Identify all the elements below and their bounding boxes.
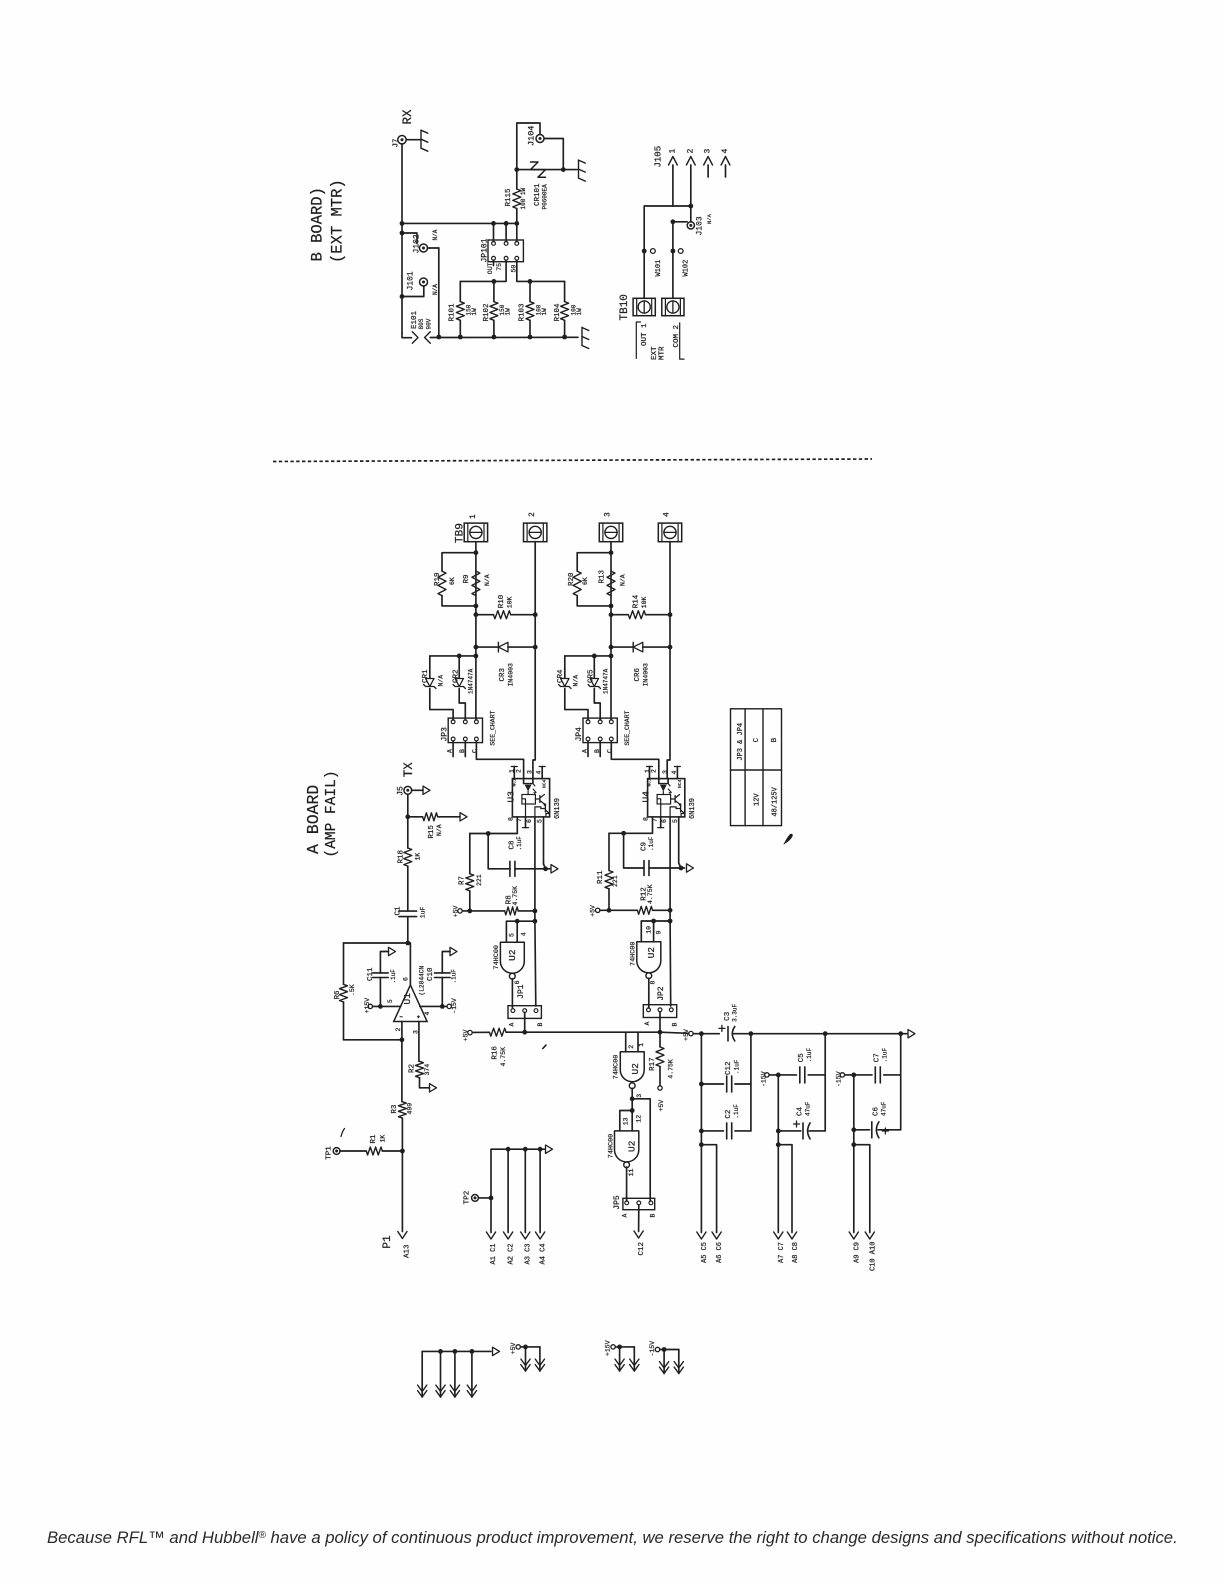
wire P1 ground bus — [491, 1149, 545, 1198]
wire JP2 mid to rail — [659, 1012, 661, 1032]
svg-text:.1uF: .1uF — [882, 1047, 889, 1062]
resistor R7 — [469, 834, 471, 874]
svg-text:C1: C1 — [395, 906, 403, 916]
svg-text:4.75K: 4.75K — [647, 884, 654, 904]
resistor R17 — [659, 1032, 661, 1047]
svg-text:W102: W102 — [683, 260, 691, 277]
svg-text:2: 2 — [686, 149, 695, 154]
resistor R6 — [343, 943, 345, 984]
svg-text:C: C — [607, 749, 614, 753]
resistor R19 loop — [442, 553, 476, 571]
svg-text:(L2844CN: (L2844CN — [418, 966, 425, 996]
svg-text:TP2: TP2 — [464, 1191, 472, 1205]
svg-text:74HC00: 74HC00 — [612, 1055, 620, 1079]
svg-text:U2: U2 — [646, 947, 657, 959]
wire gate3 pin12 — [631, 1111, 633, 1131]
svg-text:9: 9 — [656, 931, 663, 935]
svg-text:CR1: CR1 — [422, 669, 430, 683]
resistor R10 — [476, 614, 494, 616]
svg-text:N/A: N/A — [432, 229, 439, 240]
svg-text:J5: J5 — [396, 786, 405, 796]
wire TB9-2 column — [533, 542, 535, 779]
svg-text:10K: 10K — [641, 596, 648, 608]
wire column A9 — [853, 1075, 855, 1233]
resistor R12 — [609, 909, 637, 911]
jumper block JP1 — [508, 1006, 541, 1019]
svg-text:4: 4 — [424, 1012, 431, 1016]
wire JP4 stubs — [587, 741, 589, 757]
power tap +15V U1 — [368, 1004, 372, 1008]
svg-text:R115: R115 — [505, 188, 513, 207]
wire gate1 output — [511, 979, 513, 1008]
svg-text:A: A — [621, 1214, 628, 1218]
wire JP3 top rail — [430, 655, 476, 657]
svg-text:6: 6 — [661, 819, 668, 823]
ground bus bottom left — [422, 1350, 491, 1352]
svg-text:80S: 80S — [418, 318, 425, 329]
svg-text:R17: R17 — [649, 1057, 657, 1071]
svg-text:R104: R104 — [554, 303, 562, 322]
capacitor C9 — [624, 833, 645, 868]
svg-text:A: A — [509, 1023, 516, 1027]
svg-text:.1uF: .1uF — [806, 1047, 813, 1062]
terminal TB9-2 — [524, 523, 547, 542]
svg-text:+5V: +5V — [463, 1029, 470, 1041]
svg-text:R16: R16 — [491, 1046, 499, 1060]
svg-text:R2: R2 — [408, 1064, 416, 1073]
scan artifact squiggle — [341, 1129, 345, 1137]
svg-text:47uF: 47uF — [805, 1101, 812, 1116]
test point TP1 — [333, 1148, 340, 1155]
wire JP101-75 to R101/R102 — [460, 260, 506, 281]
svg-text:CR5: CR5 — [587, 669, 595, 683]
svg-text:Because RFL™ and Hubbell® have: Because RFL™ and Hubbell® have a policy … — [47, 1528, 1178, 1547]
ground pin 2 — [440, 1351, 442, 1397]
diode CR6 — [611, 646, 633, 648]
svg-text:10K: 10K — [506, 596, 513, 608]
svg-text:B BOARD): B BOARD) — [309, 187, 327, 261]
svg-text:+15V: +15V — [364, 998, 371, 1014]
wire TB10 out1 riser — [644, 206, 691, 298]
svg-text:4: 4 — [663, 512, 672, 517]
svg-text:1W: 1W — [541, 308, 548, 316]
wire JP101-50 to R103/R104 — [517, 260, 565, 281]
wire TB10 com2 riser — [672, 222, 674, 298]
terminal TB10-1 — [633, 298, 655, 315]
jumper block JP3 — [448, 718, 482, 743]
svg-text:TB10: TB10 — [619, 294, 631, 320]
svg-text:P1: P1 — [382, 1235, 394, 1249]
svg-text:6: 6 — [514, 980, 521, 984]
nand gate U2a — [500, 942, 524, 973]
svg-text:U2: U2 — [627, 1140, 638, 1152]
svg-text:+5V: +5V — [589, 905, 596, 917]
svg-text:C5: C5 — [798, 1053, 806, 1063]
svg-text:.5K: .5K — [349, 984, 356, 996]
wire J104 to ground — [544, 139, 563, 170]
svg-text:374: 374 — [424, 1064, 431, 1076]
svg-text:P0600EA: P0600EA — [542, 184, 549, 210]
net arrow at J5 — [412, 789, 423, 791]
svg-text:1: 1 — [638, 1043, 645, 1047]
svg-text:IN4003: IN4003 — [642, 663, 649, 687]
net arrow A6 C6 — [701, 1145, 716, 1233]
wire J103 link — [673, 221, 687, 223]
svg-text:6: 6 — [402, 977, 409, 981]
wire gate2 pin1 tap — [637, 1032, 639, 1052]
svg-text:R3: R3 — [391, 1104, 399, 1114]
svg-text:J101: J101 — [407, 271, 416, 290]
svg-text:R7: R7 — [458, 876, 466, 885]
svg-text:RX: RX — [401, 109, 415, 125]
wire U1 pin2 — [401, 1022, 403, 1102]
capacitor C11 — [379, 978, 381, 1007]
net arrow +5V rail — [901, 1033, 908, 1035]
svg-text:JP101: JP101 — [481, 238, 490, 262]
svg-text:-15V: -15V — [836, 1071, 843, 1087]
wire J7 column lower — [401, 233, 403, 297]
wire J104 loop — [517, 123, 540, 170]
resistor R15 — [408, 816, 423, 818]
resistor R3 — [398, 1102, 406, 1118]
svg-text:4.75K: 4.75K — [512, 886, 519, 906]
svg-text:CR3: CR3 — [499, 667, 507, 681]
feedback wire — [344, 942, 408, 944]
svg-text:W101: W101 — [655, 260, 663, 277]
svg-text:(AMP FAIL): (AMP FAIL) — [324, 770, 340, 857]
net arrow C10 A10 — [854, 1145, 870, 1233]
capacitor C10 — [441, 978, 443, 1007]
capacitor C5 — [778, 1074, 796, 1076]
svg-text:74HC00: 74HC00 — [629, 942, 637, 966]
svg-text:6K: 6K — [582, 577, 589, 585]
svg-text:3: 3 — [636, 1094, 643, 1098]
svg-text:SEE_CHART: SEE_CHART — [624, 710, 631, 745]
wire column A5 — [700, 1034, 702, 1233]
scan artifact tick — [543, 1045, 546, 1048]
svg-text:48/125V: 48/125V — [771, 786, 779, 816]
svg-text:TX: TX — [402, 762, 416, 778]
test point TP2 — [472, 1195, 479, 1202]
svg-text:CR2: CR2 — [452, 669, 460, 683]
svg-text:R14: R14 — [633, 594, 641, 608]
svg-text:SEE_CHART: SEE_CHART — [489, 710, 496, 745]
test point W101 — [651, 249, 656, 254]
svg-text:1W: 1W — [471, 308, 478, 316]
ground pin 3 — [454, 1351, 456, 1397]
svg-text:C: C — [753, 737, 761, 742]
svg-text:.1uF: .1uF — [733, 1104, 740, 1119]
svg-text:J105: J105 — [654, 146, 664, 168]
net arrow A2 C2 — [507, 1149, 509, 1232]
power tap +5V R8 — [458, 909, 462, 913]
svg-text:J7: J7 — [393, 138, 401, 147]
svg-text:6N139: 6N139 — [689, 798, 697, 819]
net arrow J105-3 — [707, 165, 709, 177]
terminal TB10-2 — [662, 298, 684, 315]
wire J7 to chassis — [406, 139, 421, 141]
wire gate1 inputs — [506, 921, 535, 942]
svg-text:N/A: N/A — [706, 213, 713, 224]
chassis ground at J7 — [420, 130, 422, 148]
net arrow A8 C8 — [778, 1145, 792, 1233]
capacitor C12 — [701, 1083, 723, 1085]
svg-text:12V: 12V — [754, 793, 762, 806]
svg-text:75: 75 — [496, 263, 503, 271]
svg-text:100 1W: 100 1W — [520, 187, 527, 209]
nand gate U2d — [637, 942, 661, 973]
net arrow A1 C1 — [490, 1198, 492, 1233]
svg-text:221: 221 — [612, 875, 619, 887]
chassis ground at CR101 — [578, 160, 580, 178]
svg-text:U2: U2 — [507, 949, 518, 961]
svg-text:C10: C10 — [427, 967, 435, 981]
net arrow J105-2 — [690, 165, 692, 206]
wire J102 stub — [402, 233, 417, 244]
capacitor C6 — [854, 1129, 870, 1131]
connector J5 (TX) — [404, 786, 412, 794]
terminal TB9-3 — [599, 523, 622, 542]
svg-text:U2: U2 — [630, 1063, 641, 1075]
wire U4 pin6 column — [669, 817, 671, 921]
svg-text:N/A: N/A — [619, 574, 626, 586]
svg-text:8: 8 — [507, 817, 514, 821]
svg-text:6N139: 6N139 — [554, 798, 562, 819]
svg-text:CR6: CR6 — [634, 667, 642, 681]
net arrow C12 from JP5 — [638, 1205, 640, 1232]
wire gate2out to JP5-B — [632, 1099, 650, 1201]
resistor R1 — [340, 1150, 366, 1152]
svg-text:JP5: JP5 — [613, 1195, 622, 1210]
svg-text:R103: R103 — [519, 303, 527, 322]
wire JP3-C to U3 pin2 — [476, 741, 523, 779]
connector J102 — [420, 244, 428, 252]
svg-text:JP2: JP2 — [657, 986, 666, 1001]
svg-text:13: 13 — [623, 1117, 630, 1125]
wire +5V top rail — [701, 1033, 719, 1035]
svg-text:B: B — [649, 1214, 656, 1218]
resistor R18 — [404, 848, 412, 866]
svg-text:N/A: N/A — [432, 284, 439, 295]
svg-text:1: 1 — [469, 514, 478, 519]
svg-text:U3: U3 — [505, 791, 516, 803]
svg-text:1K: 1K — [415, 853, 422, 861]
capacitor C4 — [778, 1130, 801, 1132]
svg-text:3.3uF: 3.3uF — [732, 1003, 739, 1021]
wire J101 bracket — [402, 286, 424, 297]
connector J7 (RX) — [398, 136, 406, 144]
svg-text:A6 C6: A6 C6 — [716, 1242, 724, 1263]
svg-text:1K: 1K — [379, 1135, 386, 1143]
wire U3 pin5 — [543, 817, 545, 864]
svg-text:TP1: TP1 — [325, 1146, 333, 1160]
svg-text:A4 C4: A4 C4 — [539, 1243, 547, 1264]
svg-text:R10: R10 — [498, 594, 506, 608]
wire J7 down — [401, 144, 403, 233]
wire U3 pin6 column — [534, 817, 536, 921]
svg-text:3: 3 — [662, 770, 669, 774]
svg-text:C12: C12 — [638, 1242, 646, 1256]
wire JP4 top rail — [565, 655, 611, 657]
wire jack bus — [438, 248, 440, 337]
wire J102 to bracket — [428, 247, 439, 249]
resistor R8 — [470, 910, 505, 912]
svg-text:IN4003: IN4003 — [508, 663, 515, 687]
wire CR101 node — [517, 169, 564, 171]
wire P1-A13 — [401, 1151, 403, 1232]
svg-text:5: 5 — [508, 933, 515, 937]
wire gate4 inputs — [641, 921, 670, 942]
capacitor C7 — [854, 1074, 872, 1076]
power tap +5V R12 — [596, 908, 600, 912]
terminal TB9-4 — [658, 523, 681, 542]
capacitor C2 — [701, 1130, 723, 1132]
capacitor C1 — [399, 910, 417, 912]
capacitor C3 — [719, 1027, 725, 1029]
wire B-board ground rail — [430, 336, 578, 338]
svg-text:4: 4 — [671, 771, 678, 775]
wire gate3 output — [626, 1167, 628, 1201]
jumper block JP4 — [583, 718, 617, 743]
svg-text:2: 2 — [651, 769, 658, 773]
svg-text:C12: C12 — [725, 1061, 733, 1075]
wire column right3 — [900, 1034, 902, 1130]
connector J103 — [687, 222, 694, 229]
resistor R11 — [608, 833, 610, 870]
resistor R104 — [564, 281, 566, 301]
wire JP3 stubs — [452, 741, 454, 757]
svg-text:R101: R101 — [449, 303, 457, 322]
terminal TB9-1 — [464, 523, 487, 542]
wire U3 pin8 rail — [470, 817, 518, 834]
wire column right1 — [750, 1034, 752, 1131]
svg-text:R13: R13 — [598, 569, 606, 583]
wire JP1 mid to rail — [524, 1013, 526, 1033]
wire JP4-C to U4 pin2 — [611, 741, 659, 779]
svg-text:C6: C6 — [872, 1106, 880, 1116]
svg-text:6K: 6K — [449, 577, 456, 585]
svg-text:5: 5 — [387, 999, 394, 1003]
wire TB9-1 column — [475, 542, 477, 720]
optocoupler U3 6N139 — [512, 779, 549, 817]
ink smudge artifact — [785, 834, 793, 843]
svg-text:OUT 1: OUT 1 — [641, 323, 649, 346]
svg-text:NC1: NC1 — [647, 778, 653, 787]
svg-text:J104: J104 — [527, 126, 537, 146]
svg-text:221: 221 — [476, 874, 483, 886]
optocoupler U4 6N139 — [648, 779, 685, 817]
wire gate2 output — [631, 1088, 633, 1110]
resistor R16 — [489, 1028, 506, 1036]
diode CR2 — [458, 656, 460, 678]
net arrow J105-4 — [725, 165, 727, 177]
svg-text:1W: 1W — [576, 308, 583, 316]
svg-text:A8 C8: A8 C8 — [792, 1242, 800, 1263]
svg-text:CR4: CR4 — [557, 669, 565, 683]
svg-text:C2: C2 — [725, 1110, 733, 1119]
svg-text:2: 2 — [628, 1045, 635, 1049]
svg-text:-15V: -15V — [760, 1071, 767, 1087]
bracket lines — [636, 322, 640, 358]
svg-text:C10 A10: C10 A10 — [870, 1242, 878, 1271]
svg-text:A13: A13 — [403, 1244, 411, 1258]
svg-text:4: 4 — [721, 149, 730, 154]
svg-text:B: B — [537, 1023, 544, 1027]
svg-text:R9: R9 — [463, 574, 471, 583]
resistor R9 — [472, 571, 480, 596]
svg-text:.1uF: .1uF — [648, 836, 655, 851]
svg-text:R11: R11 — [597, 870, 605, 884]
svg-text:N/A: N/A — [484, 574, 491, 586]
svg-text:N/A: N/A — [436, 824, 443, 836]
connector J104 — [536, 135, 544, 143]
diode CR5 — [593, 656, 595, 678]
svg-text:NC4: NC4 — [542, 779, 548, 788]
resistor R20 loop — [577, 553, 611, 571]
resistor R115 — [516, 209, 518, 224]
svg-text:2: 2 — [528, 512, 537, 517]
svg-text:499: 499 — [407, 1103, 414, 1115]
jumper block JP2 — [643, 1005, 676, 1018]
svg-text:.1uF: .1uF — [390, 969, 397, 984]
wire TB9-3 column — [610, 542, 612, 720]
svg-text:A2 C2: A2 C2 — [507, 1243, 515, 1264]
resistor R101 — [459, 281, 461, 301]
diode CR1 — [429, 656, 431, 678]
svg-text:4.75K: 4.75K — [668, 1059, 675, 1079]
svg-text:-15V: -15V — [451, 998, 458, 1014]
jumper block JP5 — [623, 1198, 655, 1209]
spark gap E101 — [402, 333, 412, 338]
svg-text:+5V: +5V — [453, 905, 460, 917]
net arrow A4 C4 — [539, 1149, 541, 1232]
svg-text:1uF: 1uF — [419, 906, 426, 918]
svg-text:J103: J103 — [696, 216, 705, 235]
svg-text:N/A: N/A — [438, 675, 445, 687]
svg-text:NC1: NC1 — [511, 778, 517, 787]
resistor R103 — [529, 281, 531, 301]
svg-text:12: 12 — [635, 1115, 642, 1123]
svg-text:R18: R18 — [398, 850, 406, 864]
svg-text:C11: C11 — [367, 967, 375, 981]
svg-text:5: 5 — [672, 819, 679, 823]
diode CR3 — [476, 646, 499, 648]
svg-text:U4: U4 — [641, 791, 652, 803]
nand gate U2b — [620, 1052, 644, 1082]
wire gate3 pin13 jog — [620, 1111, 632, 1131]
svg-text:B: B — [771, 737, 779, 742]
svg-text:4: 4 — [521, 932, 528, 936]
svg-text:3: 3 — [604, 512, 613, 517]
wire +5V jumper rail — [506, 1031, 660, 1033]
svg-text:.1uF: .1uF — [451, 969, 458, 984]
svg-text:8: 8 — [643, 817, 650, 821]
net arrow A3 C3 — [524, 1149, 526, 1232]
wire gate2 pin2 tap — [625, 1032, 627, 1052]
svg-text:N/A: N/A — [573, 675, 580, 687]
power tap +5V rail — [468, 1030, 472, 1034]
svg-text:1W: 1W — [505, 308, 512, 316]
wire U1 pin3 — [418, 1022, 420, 1062]
svg-text:U1: U1 — [402, 993, 413, 1005]
svg-text:JP4: JP4 — [575, 727, 584, 742]
svg-text:C: C — [472, 749, 479, 753]
net arrow C8 — [551, 865, 558, 873]
svg-text:11: 11 — [628, 1168, 635, 1176]
wire gate4 output — [648, 978, 650, 1008]
svg-text:5: 5 — [537, 819, 544, 823]
svg-text:.1uF: .1uF — [734, 1059, 741, 1074]
